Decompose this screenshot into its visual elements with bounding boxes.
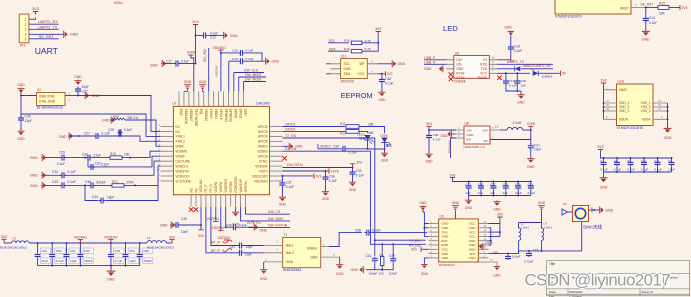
svg-text:C57: C57 [490,183,496,187]
svg-text:GND: GND [17,83,25,87]
ground (C25) [17,123,25,142]
ground (C14) [642,23,650,42]
svg-text:C14: C14 [649,16,655,20]
svg-text:Sheet of: Sheet of [642,290,654,294]
wire left power bus [29,242,147,244]
power port 3V3 (U1B) [600,79,606,87]
svg-text:UNBAL: UNBAL [307,247,318,251]
capacitor C45 10nF [174,217,189,234]
ground (balun right) [336,257,344,276]
wire rc gnd bus [366,263,393,271]
svg-text:蓝色: 蓝色 [386,143,392,148]
svg-text:C54: C54 [129,249,135,253]
svg-text:0.1uF: 0.1uF [514,49,522,53]
inductor L6 1.3nH [542,222,552,251]
ground (VSSIO bottom) [232,207,240,227]
svg-text:FB: FB [484,139,488,143]
ground (C21) [527,150,535,169]
wire ANT out [489,253,519,255]
power port 3V3 (UART) [32,7,39,15]
svg-text:UD-: UD- [456,63,462,67]
svg-text:GPIO6: GPIO6 [258,155,268,159]
ground (C45) [160,221,175,228]
svg-text:9/09/2021: 9/09/2021 [569,290,583,294]
svg-text:10nF: 10nF [181,230,188,234]
capacitor C30 27pF [82,153,101,161]
svg-text:VCC: VCC [358,72,366,76]
svg-text:UD+: UD+ [456,58,463,62]
svg-text:R12: R12 [340,132,346,136]
svg-text:GND: GND [600,186,608,190]
svg-text:EN: EN [467,137,471,141]
svg-text:DW1000: DW1000 [256,102,269,106]
wire bottom gnd bus [38,265,140,267]
svg-text:GPIO3: GPIO3 [285,127,295,131]
resistor R19 16K [110,152,131,159]
svg-text:C52: C52 [84,249,90,253]
ground (C62) [378,84,386,103]
resistor R11 15K [340,122,385,133]
svg-text:CLKTUNE: CLKTUNE [175,159,190,163]
svg-text:GND: GND [322,197,330,201]
capacitor C50 0.1uF [49,243,65,266]
ground (LEDs) [381,152,389,163]
no-connect NC pins bottom [189,207,198,211]
svg-text:33K 1%: 33K 1% [127,116,138,120]
svg-text:0.1uF: 0.1uF [649,21,657,25]
svg-text:C58: C58 [503,183,509,187]
svg-text:GND: GND [92,94,100,98]
svg-text:VDDPA: VDDPA [219,181,223,193]
resistor R10 33K [110,115,161,146]
svg-text:SE_RST: SE_RST [39,35,54,39]
net label RF_N [211,240,232,244]
ground (JP3) [63,31,79,38]
capacitor C47 12pF [230,240,279,250]
svg-text:0.1uF: 0.1uF [385,81,393,85]
net label UART2_TX (CH340) [497,60,553,64]
svg-text:SDA: SDA [329,47,337,51]
svg-text:U9: U9 [440,215,444,219]
svg-text:4.7K: 4.7K [365,47,372,51]
svg-text:LED: LED [443,24,458,33]
net label USB_N [424,61,447,65]
capacitor C25 12pF [18,115,32,123]
svg-text:XTAL GND: XTAL GND [39,100,56,104]
power port 3V3 (VDDAON) [281,173,321,178]
ground (1V8 row a) [465,196,473,211]
svg-text:3V3: 3V3 [316,174,322,178]
svg-text:GND: GND [260,229,268,233]
wire DW_IRQ [208,48,210,91]
net label DW_MOSI [244,78,266,92]
svg-text:1V8: 1V8 [450,174,456,178]
svg-text:D4: D4 [510,59,514,63]
svg-text:AT24C08: AT24C08 [341,79,354,83]
capacitor C19 0.75pF [524,248,539,264]
capacitor C18 0.1uF [229,57,262,91]
svg-text:VDDDIG: VDDDIG [215,65,219,77]
svg-text:0.1uF: 0.1uF [68,180,76,184]
wire row C33 [43,161,161,175]
power port 3V3 (below C45) [198,225,204,238]
wire VCC node [377,73,383,75]
svg-text:C50: C50 [56,249,62,253]
power port VDDPA2 [104,235,117,243]
capacitor C7 0.1uF [600,158,608,172]
svg-text:VDDVCO: VDDVCO [175,174,189,178]
svg-text:100pF: 100pF [389,272,398,276]
power port 3V3 (right of L4) [166,235,175,243]
svg-text:VDDPA: VDDPA [214,181,218,193]
no-connect RTS CTS [449,72,453,81]
svg-text:R19: R19 [110,152,116,156]
power port 3V3 (NRST) [669,5,688,10]
wire SE_RST [29,38,59,40]
wire TX_EN run [299,137,301,139]
svg-text:BLM15AG601SN1D: BLM15AG601SN1D [147,246,175,250]
svg-text:L2: L2 [13,237,17,241]
svg-text:C11: C11 [654,159,659,163]
ground (C16 top) [505,26,515,36]
svg-text:CSDN @liyinuo2017: CSDN @liyinuo2017 [525,271,671,290]
capacitor C13 0.1uF [503,73,517,87]
svg-text:BAL2: BAL2 [286,251,294,255]
svg-text:C35: C35 [52,180,58,184]
svg-text:R18: R18 [344,47,350,51]
svg-text:18pF: 18pF [107,196,114,200]
wire U9 right gnd bus [489,228,495,250]
svg-text:2.2uH: 2.2uH [513,121,522,125]
svg-text:10pF: 10pF [129,259,136,263]
svg-text:FORCEON: FORCEON [234,176,238,193]
ground (rc group) [351,266,365,273]
svg-text:100pF: 100pF [512,255,521,259]
svg-text:UART2_TX: UART2_TX [38,25,58,29]
svg-text:3V3: 3V3 [356,161,362,165]
svg-text:LED6: LED6 [380,134,388,138]
net label DW_CLK [234,69,264,92]
IC U8 LM3671 [456,122,500,149]
wire LED6 to gnd [384,143,386,153]
ground (R10 row) [102,116,115,123]
svg-text:0.1uF: 0.1uF [56,259,64,263]
ground (C12) [208,32,238,39]
net label MVA2 [114,1,123,5]
svg-text:RSTn: RSTn [259,169,267,173]
svg-text:C6: C6 [668,159,672,163]
svg-text:1nF: 1nF [478,191,483,195]
wire row C35 [43,166,161,186]
svg-text:JP3: JP3 [20,44,26,48]
net label SE_RST (top) [641,3,659,9]
capacitor C61 0.1uF [528,182,536,196]
svg-text:330pF: 330pF [84,259,93,263]
svg-text:C21: C21 [534,143,540,147]
svg-text:SPICLK: SPICLK [219,109,223,121]
IC U9 RF switch [429,215,489,268]
svg-text:SE_RST: SE_RST [641,3,654,7]
svg-text:U7: U7 [172,102,176,106]
svg-text:STM32F103CBT6: STM32F103CBT6 [555,15,582,19]
capacitor C17 0.1uF [163,59,196,66]
svg-text:3V3: 3V3 [32,7,39,11]
svg-text:NC: NC [189,187,193,192]
net label VDDPA2 (chip) [212,207,225,231]
svg-text:SMA天线: SMA天线 [583,224,603,231]
ground (C29 row) [30,154,46,161]
svg-text:GND: GND [30,156,38,160]
svg-text:VDDAON: VDDAON [254,179,268,183]
op-amp U7 DW1000 IC [157,91,282,206]
svg-text:GND: GND [30,174,38,178]
svg-text:HHM1595A1: HHM1595A1 [283,268,302,272]
wire 1V8 row top bus [458,181,532,183]
capacitor C59 10uF [515,182,522,196]
net label SDA [328,47,349,51]
ground (U9 left) [419,201,427,212]
svg-text:GND: GND [351,268,359,272]
svg-text:RF_N: RF_N [211,240,220,244]
svg-text:R11: R11 [340,122,346,126]
wire VIN [428,129,456,131]
IC U10 AT24C08 [331,54,378,83]
svg-text:100pF: 100pF [369,272,378,276]
svg-text:C26: C26 [108,128,114,132]
wire tank top bus [519,216,542,228]
net label TX_EN (chip) [282,134,300,138]
svg-text:R6: R6 [380,253,384,257]
capacitor C11 0.1uF [654,158,662,172]
capacitor C34 0.1uF [323,171,338,183]
svg-text:VDDIO: VDDIO [214,109,218,120]
capacitor C62 0.1uF [379,74,394,86]
svg-text:DW_IRQ: DW_IRQ [203,49,207,62]
inductor L2 [0,237,29,250]
svg-text:GND: GND [664,136,672,140]
ground (SMA) [599,206,614,213]
svg-text:V3: V3 [483,58,487,62]
svg-text:TXD: TXD [481,67,488,71]
svg-text:GND: GND [150,64,158,68]
svg-text:GND: GND [469,256,477,260]
svg-text:GND: GND [349,188,357,192]
svg-text:RXD: RXD [480,63,487,67]
svg-text:GND: GND [421,272,429,276]
wire VDDREG [225,207,231,229]
IC U1A STM32F103 (partial) [555,0,645,19]
capacitor C10 0.1uF [641,158,649,172]
LED5 green [357,133,374,144]
wire LED5 to gnd [367,140,386,150]
svg-text:1N5819: 1N5819 [542,74,553,78]
svg-text:0.1uF: 0.1uF [641,168,649,172]
svg-text:1.3nH: 1.3nH [544,226,552,230]
svg-text:UART: UART [35,46,59,56]
svg-text:C12: C12 [210,36,216,40]
capacitor C46 0.1uF [226,223,247,230]
svg-text:C42: C42 [389,254,395,258]
wire RF_N row [211,207,237,246]
diode D4 1N5819 [497,59,553,71]
svg-text:C45: C45 [181,217,187,221]
LED6 blue [380,134,392,148]
svg-text:R10: R10 [113,115,119,119]
svg-text:RF_N: RF_N [209,183,213,192]
svg-text:1uF: 1uF [490,191,495,195]
svg-text:GND: GND [244,109,248,117]
svg-text:0.1uF: 0.1uF [68,170,76,174]
net label VDDDIG vertical [215,65,219,77]
power port VDDPA1 [74,235,87,243]
svg-text:GPIO2: GPIO2 [258,125,268,129]
crystal X2 [37,88,66,110]
ground (crystal pin1) [69,92,100,102]
svg-text:GND: GND [517,101,525,105]
svg-text:C43: C43 [465,183,471,187]
svg-text:0.1uF: 0.1uF [102,132,110,136]
svg-text:IRQ: IRQ [199,109,203,115]
svg-text:GND: GND [160,224,168,228]
capacitor C21 10uF [528,140,542,152]
capacitor C37 0.1uF [279,176,294,189]
svg-text:C40: C40 [478,183,484,187]
svg-text:GND: GND [398,62,406,66]
section title LED [443,24,458,33]
ground above crystal area [74,75,82,85]
svg-text:GND: GND [336,272,344,276]
svg-text:VDDCLK: VDDCLK [175,164,189,168]
svg-text:GND: GND [17,137,25,141]
wire XTAL1 to chip [78,96,161,132]
svg-text:SCL: SCL [344,62,351,66]
wire to SMA [581,222,583,251]
svg-text:38.4000MHZ/2016: 38.4000MHZ/2016 [37,106,64,110]
svg-text:GND: GND [272,60,280,64]
svg-text:0.1uF: 0.1uF [627,168,635,172]
svg-text:VCOTUNE: VCOTUNE [175,179,191,183]
IC U1B STM32F103CBT6 [604,80,668,131]
ground (tank) [538,201,546,223]
svg-text:C62: C62 [385,77,391,81]
svg-text:SPIMISO: SPIMISO [224,109,228,123]
ground (U1B) [664,127,672,140]
svg-text:1N5819 UART2_RX: 1N5819 UART2_RX [522,64,552,68]
wire cap row bottom bus [604,171,672,173]
svg-text:10K: 10K [379,272,385,276]
ground (chip top pin6) [199,80,207,91]
svg-text:V1P8: V1P8 [331,169,339,173]
svg-text:C53: C53 [115,249,121,253]
svg-text:16K: 16K [124,153,131,157]
svg-text:DW_CS: DW_CS [268,210,281,214]
svg-text:C49: C49 [41,249,47,253]
net label DW_IRQ vertical [203,49,207,62]
capacitor C53 0.1uF [108,243,124,266]
svg-text:VCC: VCC [480,72,487,76]
svg-text:VBAT: VBAT [619,88,627,92]
svg-text:RFSW1012: RFSW1012 [439,263,455,267]
ground (C32) [349,176,357,192]
capacitor C56 12pF [237,248,278,257]
svg-text:GND: GND [260,277,268,281]
ground (U9 ANT gnd tap) [479,241,493,250]
ground (C37) [279,187,287,207]
svg-text:C61: C61 [528,183,534,187]
wire VDDDIG vert [220,50,222,91]
capacitor C58 1nF [503,182,509,196]
svg-text:GND: GND [74,75,82,79]
capacitor C33 0.1uF [52,170,76,178]
wire U10 SDA [326,73,331,75]
ground (C27 row) [59,132,73,139]
wire C38 to U9 TRX [371,231,426,234]
svg-text:GND: GND [642,38,650,42]
svg-text:VDDIOA: VDDIOA [255,164,268,168]
svg-text:VDDLNA: VDDLNA [199,179,203,193]
section title EEPROM [341,91,373,100]
wire cap row top bus [601,153,673,160]
svg-text:CH340E: CH340E [454,80,466,84]
svg-text:Date:: Date: [549,290,557,294]
svg-text:VDDIF: VDDIF [175,155,185,159]
capacitor C9 0.1uF [627,158,635,172]
net label SE_RST [39,35,54,39]
no-connect TNOW [497,76,501,80]
svg-text:4.7K: 4.7K [365,39,372,43]
capacitor C28 0.1uF [282,150,335,152]
wire UART2_RX [29,23,59,25]
capacitor C29 0.1uF [57,151,67,167]
wire crystal left [20,95,37,117]
svg-text:GND: GND [452,201,460,205]
svg-text:VDDA: VDDA [619,117,629,121]
svg-text:SDA: SDA [344,72,352,76]
wire JP3 pin4 to GND [29,33,63,35]
inductor L4 [147,236,175,250]
capacitor C57 1uF [490,182,496,196]
svg-text:VDDDIG: VDDDIG [204,109,208,122]
diode D3 1N5819 [497,68,558,79]
svg-text:3V3: 3V3 [411,248,417,252]
resistor R18 4.7K [344,43,378,53]
svg-text:TX_EN: TX_EN [409,239,420,243]
svg-text:U8: U8 [465,122,469,126]
svg-text:0.1uF: 0.1uF [614,168,622,172]
svg-text:10uF: 10uF [534,148,541,152]
svg-text:VDDIO: VDDIO [320,145,331,149]
svg-text:3V3: 3V3 [198,234,204,238]
svg-text:DW_EXTON: DW_EXTON [268,224,288,228]
svg-text:C51: C51 [70,249,76,253]
svg-text:C48: C48 [493,251,499,255]
resistor R21 270R [112,180,134,187]
svg-text:0.1uF: 0.1uF [115,259,123,263]
svg-text:VSSIO: VSSIO [209,109,213,119]
ground (crystal left) [17,83,25,96]
svg-text:C46: C46 [226,223,232,227]
capacitor C55 330pF [137,243,153,266]
net label DW_MISO [239,73,266,91]
svg-text:12pF: 12pF [82,85,90,89]
svg-text:WP: WP [359,62,365,66]
svg-text:GPIO3: GPIO3 [258,130,268,134]
svg-text:GND: GND [279,203,287,207]
svg-text:0.1uF: 0.1uF [356,173,364,177]
capacitor C26 0.1uF [108,128,132,136]
svg-text:4.7uF: 4.7uF [433,137,441,141]
IC U6 CH340E [447,51,498,83]
